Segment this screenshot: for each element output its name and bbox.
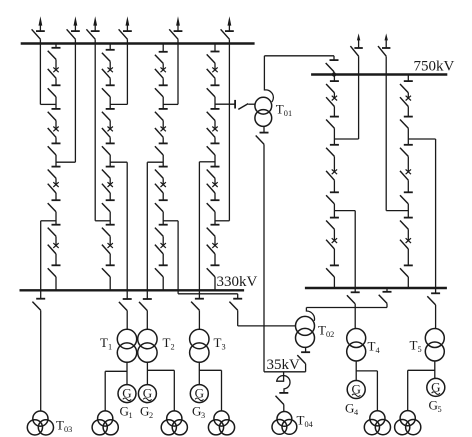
disconnect QS-T1 [119, 299, 132, 311]
label G1 [120, 404, 133, 421]
disconnect QS-L3 [86, 29, 99, 39]
label T04 [297, 413, 314, 430]
svg-text:T: T [214, 335, 222, 350]
breaker QFS2-2 [102, 127, 113, 138]
bus W4 750kV bottom busbar [305, 287, 447, 289]
svg-text:03: 03 [64, 425, 72, 434]
disconnect QS-T01b [326, 60, 339, 72]
transformer T03 (three-winding) [27, 411, 53, 435]
disconnect QS-L7 [350, 46, 362, 56]
wire: string S4 axis segments [214, 44, 216, 291]
feeder L3 outgoing arrow [93, 16, 97, 31]
disconnect QSS1-6 [48, 200, 61, 212]
disconnect QSS6-5 [400, 218, 413, 230]
breaker QFS6-3 [400, 238, 411, 249]
breaker QFS1-2 [48, 127, 59, 138]
disconnect QSS2-6 [102, 200, 115, 212]
disconnect QSS3-3 [155, 109, 168, 121]
disconnect QSS4-6 [207, 200, 220, 212]
label 750kV [414, 59, 455, 75]
label T5 [410, 338, 422, 355]
wire: S1 tap3 to T03 branch [41, 220, 56, 222]
disconnect QSS3-5 [155, 167, 168, 179]
svg-text:35kV: 35kV [267, 357, 301, 373]
disconnect QSS3-2 [155, 85, 168, 97]
disconnect QS-T2 [139, 299, 152, 311]
wire: T03 branch drop (crosses W2) [40, 221, 42, 299]
wire: string S1 axis segments [55, 44, 57, 291]
disconnect QS-T02a [229, 299, 242, 311]
transformer T04 (three-winding) [272, 412, 297, 435]
disconnect QS-T03 [32, 299, 45, 311]
wire: T5 branch to transformer [435, 305, 437, 329]
svg-text:T: T [410, 338, 418, 353]
wire: T5 to G5 lead [435, 361, 436, 378]
svg-text:T: T [276, 102, 284, 117]
disconnect QSS1-3 [48, 109, 61, 121]
svg-text:3: 3 [222, 343, 226, 352]
transformer T3 (unit step-up) [190, 329, 209, 362]
svg-text:2: 2 [171, 343, 175, 352]
wire: T1 to G1 lead [126, 362, 128, 384]
feeder L7 outgoing arrow [357, 33, 360, 48]
wire: string S2 axis segments [109, 44, 111, 291]
transformer T01 (autotransformer) [255, 90, 273, 127]
disconnect QSS4-5 [207, 167, 220, 179]
svg-text:T: T [368, 339, 376, 354]
wire: feeder L1 drop (crosses W1) [39, 39, 41, 104]
wire: T02 35kV drop [305, 364, 307, 372]
svg-text:750kV: 750kV [414, 59, 455, 75]
wire: S2 tap1 to feeder L4 [110, 103, 127, 105]
disconnect QS-L5 [169, 29, 182, 39]
svg-text:T: T [297, 413, 305, 428]
disconnect QS-L6 [221, 29, 234, 39]
wire: T01 330kV lead [248, 103, 255, 105]
wire: 35kV tie line [264, 371, 306, 373]
disconnect QS-T02b [379, 292, 392, 304]
breaker QFS4-2 [207, 127, 218, 138]
disconnect QS-T02c [297, 352, 310, 364]
wire: feeder L6 drop (crosses W1) [228, 39, 230, 221]
disconnect QS-L8 [378, 46, 390, 56]
breaker QFS2-3 [102, 182, 113, 193]
wire: feeder L7 drop (crosses W3) [358, 56, 360, 139]
disconnect QSS4-4 [207, 143, 220, 155]
wire: string S3 axis segments [162, 44, 164, 291]
disconnect QS-T4 [347, 292, 360, 304]
transformer T5 (unit step-up) [425, 329, 444, 362]
svg-text:G: G [429, 398, 438, 413]
label G5 [429, 398, 442, 415]
wire: string S5 axis segments [333, 75, 335, 289]
wire: T4 branch drop (crosses W4) [354, 211, 356, 293]
wire: T2 to G2 lead [146, 362, 148, 384]
wire: feeder L2 drop (crosses W1) [74, 39, 76, 162]
label T1 [100, 335, 112, 352]
disconnect QSS3-1 [155, 52, 168, 64]
breaker QFS4-4 [207, 243, 218, 254]
wire: S6 tap2 to feeder L8 [386, 210, 408, 212]
disconnect QSS6-1 [400, 81, 413, 93]
wire: feeder L3 drop (crosses W1) [94, 39, 96, 221]
label T01 [276, 102, 292, 119]
disconnect QS-T01c [256, 133, 269, 145]
svg-text:1: 1 [108, 343, 112, 352]
svg-text:T: T [318, 323, 326, 338]
wire: feeder L5 drop (crosses W1) [177, 39, 179, 104]
generator G5 [427, 378, 445, 396]
feeder L4 outgoing arrow [126, 16, 130, 31]
transformer T4 (unit step-up) [347, 329, 366, 362]
breaker QFS3-2 [155, 127, 166, 138]
disconnect QSS4-1 [207, 52, 220, 64]
disconnect QSS6-6 [400, 265, 413, 277]
disconnect QSS5-3 [326, 145, 339, 157]
wire: S1 tap2 to feeder L2 [56, 161, 75, 163]
wire: S1 tap1 to feeder L1 [40, 103, 56, 105]
label T03 [56, 418, 72, 435]
disconnect QS-T01a (horizontal) [238, 104, 248, 110]
svg-text:G: G [140, 404, 149, 419]
feeder L6 outgoing arrow [228, 16, 232, 31]
wire: T3 to G3 lead [198, 362, 200, 384]
wire: S3 tap1 to feeder L5 [163, 103, 178, 105]
wire: T02 to W4 stub [386, 288, 388, 292]
svg-text:G: G [345, 401, 354, 416]
wire: G1 aux tap [105, 371, 127, 411]
disconnect QSS2-1 [102, 50, 115, 62]
svg-text:T: T [163, 335, 171, 350]
wire: S5 tap1 to feeder L7 [334, 138, 358, 140]
disconnect QSS2-3 [102, 109, 115, 121]
breaker QFS1-4 [48, 243, 59, 254]
wire: T02 750kV lead [306, 303, 387, 307]
disconnect QSS2-4 [102, 143, 115, 155]
disconnect QSS3-4 [155, 143, 168, 155]
wire: G4 aux tap [356, 371, 377, 411]
node: T01 tie junction on W3 (dot) [332, 72, 336, 76]
wire: T02 330kV branch drop (crosses W2) [178, 221, 238, 299]
wire: T4 branch to transformer [354, 304, 356, 329]
svg-text:5: 5 [418, 345, 422, 354]
wire: T01 35kV drop [263, 144, 265, 372]
disconnect QSS5-2 [326, 117, 339, 129]
breaker QFS1-3 [48, 182, 59, 193]
disconnect QSS4-3 [207, 109, 220, 121]
wire: string S6 axis segments [407, 75, 409, 289]
transformer T02 (autotransformer) [296, 308, 315, 348]
wire: G5 aux tap [408, 370, 435, 410]
wire: T2 branch to transformer [146, 311, 148, 330]
wire: T03 branch to transformer [40, 310, 42, 411]
feeder L5 outgoing arrow [176, 16, 180, 31]
breaker QFS3-3 [155, 182, 166, 193]
disconnect QSS6-2 [400, 117, 413, 129]
disconnect QSS2-2 [102, 85, 115, 97]
aux transformer TA1 (three-winding) [92, 411, 118, 435]
disconnect QSS5-4 [326, 192, 339, 204]
svg-text:02: 02 [326, 330, 334, 339]
wire: T01 750kV riser [264, 56, 334, 91]
wire: T01 35kV lead [263, 126, 265, 132]
disconnect QSS6-3 [400, 145, 413, 157]
bus W1 330kV top busbar [21, 42, 255, 44]
bus W2 330kV bottom busbar [20, 289, 245, 291]
label 35kV [267, 357, 301, 373]
svg-text:01: 01 [284, 109, 292, 118]
svg-text:3: 3 [201, 411, 205, 420]
wire: T4 to G4 lead [355, 361, 357, 381]
disconnect QSS3-8 [155, 265, 168, 277]
svg-text:2: 2 [149, 411, 153, 420]
disconnect QSS1-5 [48, 167, 61, 179]
svg-text:04: 04 [305, 420, 314, 429]
svg-text:5: 5 [438, 405, 442, 414]
svg-text:T: T [56, 418, 64, 433]
aux transformer TA4 (three-winding) [364, 411, 390, 435]
disconnect QS-T5 [427, 293, 440, 305]
label T3 [214, 335, 226, 352]
wire: T3 branch drop (crosses W2) [198, 162, 200, 299]
disconnect QSS6-4 [400, 192, 413, 204]
breaker QFS5-2 [326, 169, 337, 180]
wire: S6 tap1 to T5 branch [408, 138, 435, 140]
label T02 [318, 323, 334, 340]
disconnect QSS2-7 [102, 225, 115, 237]
wire: T02 330kV lead [238, 310, 296, 326]
disconnect QSS1-2 [48, 85, 61, 97]
aux transformer TA5 (three-winding) [395, 411, 421, 435]
svg-text:1: 1 [129, 411, 133, 420]
svg-text:G: G [120, 404, 129, 419]
breaker QFS1-1 [48, 67, 59, 78]
wire: G3 aux tap [199, 370, 221, 411]
disconnect QSS4-7 [207, 225, 220, 237]
breaker QFS5-3 [326, 238, 337, 249]
wire: G2 aux tap [147, 370, 174, 411]
disconnect QSS3-7 [155, 225, 168, 237]
aux transformer TA2 (three-winding) [161, 411, 187, 435]
wire: S5 tap2 to T4 branch [334, 210, 355, 212]
bus W3 750kV top busbar [311, 73, 447, 75]
wire: S3 tap3 to T02 branch [163, 220, 178, 222]
generator G3 [190, 385, 208, 403]
breaker QFS6-1 [400, 96, 411, 107]
disconnect QSS5-1 [326, 81, 339, 93]
disconnect QS-T04 [276, 393, 289, 405]
wire: T3 branch to transformer [198, 310, 200, 329]
wire: T1 branch drop (crosses W2) [126, 162, 128, 299]
disconnect QSS2-8 [102, 265, 115, 277]
wire: S4 tap1 to T01 branch [215, 103, 235, 105]
wire: S4 tap3 to feeder L6 [215, 220, 229, 222]
disconnect QSS1-4 [48, 143, 61, 155]
wire: S3 tap2 to T2 branch [147, 161, 163, 163]
label G3 [192, 404, 205, 421]
breaker QFS4-1 [207, 67, 218, 78]
breaker QFS6-2 [400, 169, 411, 180]
wire: feeder L8 drop (crosses W3) [385, 56, 387, 210]
disconnect QSS5-6 [326, 265, 339, 277]
label 330kV [217, 274, 258, 290]
transformer T2 (unit step-up) [138, 329, 157, 362]
label T2 [163, 335, 175, 352]
wire: S2 tap2 to T1 branch [110, 161, 127, 163]
disconnect QSS1-7 [48, 225, 61, 237]
breaker QFS4-3 [207, 182, 218, 193]
generator G4 [347, 381, 365, 399]
wire: T01 to W3 knee [333, 56, 335, 60]
svg-text:G: G [192, 404, 201, 419]
wire: T5 branch drop (crosses W4) [435, 139, 437, 293]
wire: S4 tap1 horizontal end tick (T01 330kV side) [234, 100, 236, 109]
feeder L1 outgoing arrow [39, 16, 43, 31]
disconnect QSS4-8 [207, 265, 220, 277]
breaker QFS2-4 [102, 243, 113, 254]
disconnect QS-L1 [32, 29, 45, 39]
disconnect QSS4-2 [207, 85, 220, 97]
svg-text:T: T [100, 335, 108, 350]
svg-text:330kV: 330kV [217, 274, 258, 290]
disconnect QSS1-8 [48, 265, 61, 277]
feeder L8 outgoing arrow [385, 33, 388, 48]
generator G2 [138, 385, 156, 403]
wire: T2 branch drop (crosses W2) [146, 162, 148, 299]
breaker QFS2-1 [102, 67, 113, 78]
breaker QFS3-4 [155, 243, 166, 254]
disconnect QS-L2 [67, 29, 80, 39]
wire: T1 branch to transformer [126, 311, 128, 330]
feeder L2 outgoing arrow [74, 16, 78, 31]
aux transformer TA3 (three-winding) [208, 411, 234, 435]
wire: feeder L4 drop (crosses W1) [126, 39, 128, 104]
disconnect QSS2-5 [102, 167, 115, 179]
label T4 [368, 339, 381, 356]
reactor L1 (35kV arc-suppression coil) [277, 372, 290, 393]
breaker QFS3-1 [155, 67, 166, 78]
wire: S2 tap3 to feeder L3 [95, 220, 110, 222]
disconnect QS-L4 [119, 29, 132, 39]
generator G1 [118, 385, 136, 403]
breaker QFS5-1 [326, 96, 337, 107]
wire: T02 35kV lead [305, 347, 307, 352]
label G4 [345, 401, 359, 418]
disconnect QS-T3 [191, 299, 204, 311]
wire: T01 knee to bus dot [333, 72, 335, 75]
wire: S4 tap2 to T3 branch [199, 161, 215, 163]
disconnect QSS1-1 [48, 48, 61, 60]
label G2 [140, 404, 153, 421]
disconnect QSS3-6 [155, 200, 168, 212]
transformer T1 (unit step-up) [117, 329, 136, 362]
disconnect QSS5-5 [326, 218, 339, 230]
wire: T04 lead [283, 405, 285, 412]
